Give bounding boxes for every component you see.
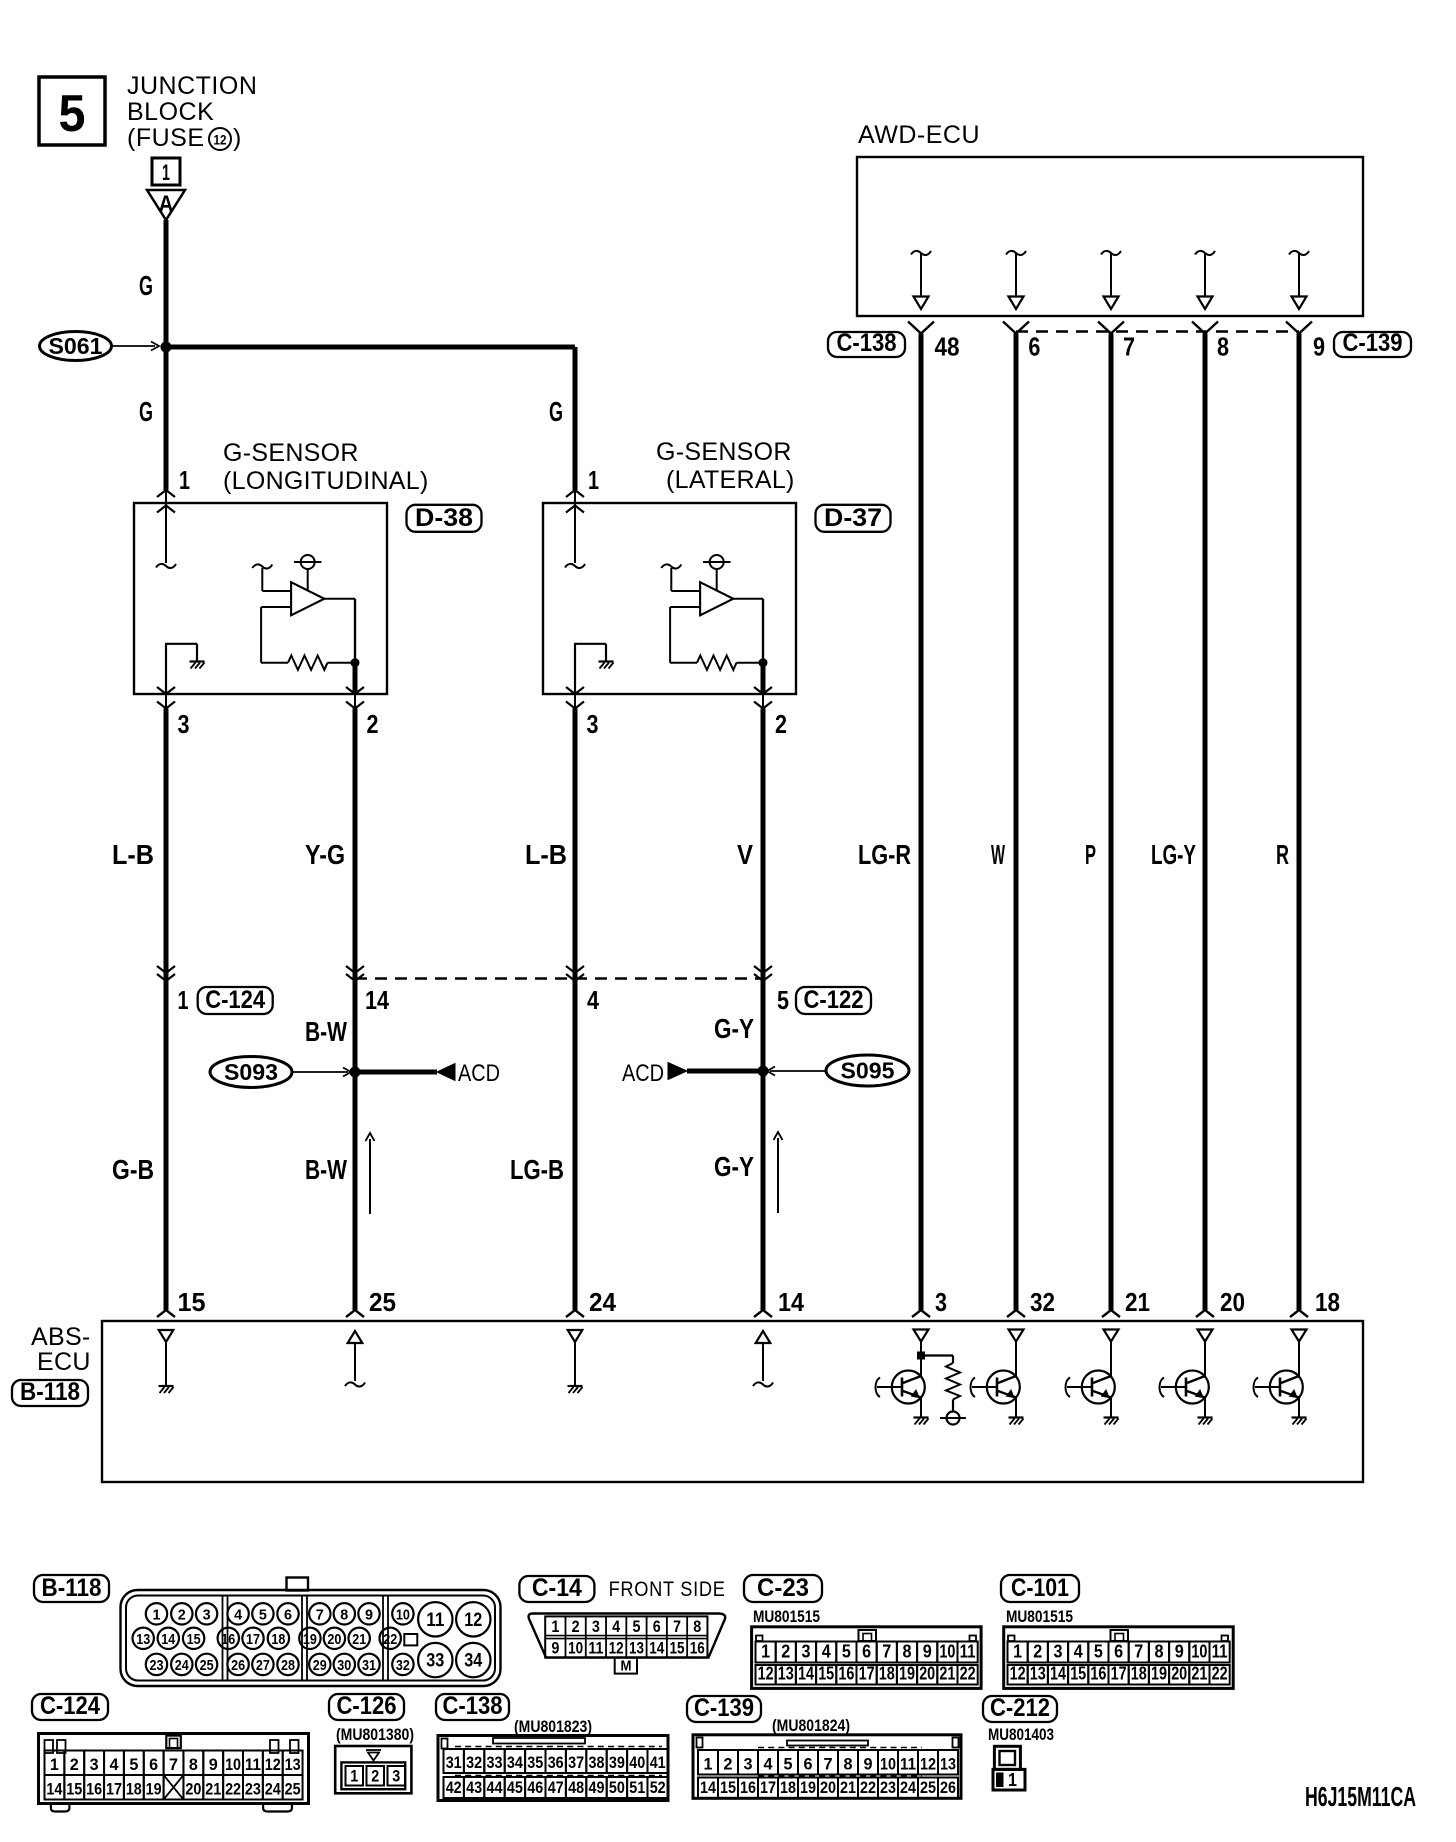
svg-text:26: 26: [231, 1657, 245, 1674]
svg-text:5: 5: [129, 1755, 138, 1774]
svg-text:13: 13: [1030, 1664, 1046, 1684]
svg-text:15: 15: [818, 1664, 834, 1684]
svg-text:20: 20: [919, 1664, 935, 1684]
svg-text:L-B: L-B: [525, 839, 567, 870]
svg-text:9: 9: [923, 1642, 932, 1662]
svg-text:LG-Y: LG-Y: [1151, 839, 1196, 870]
svg-text:14: 14: [365, 985, 389, 1015]
svg-text:14: 14: [161, 1631, 176, 1648]
svg-text:2: 2: [724, 1755, 733, 1774]
svg-text:G-B: G-B: [112, 1154, 154, 1185]
svg-text:5: 5: [59, 85, 86, 143]
svg-text:2: 2: [775, 709, 787, 739]
svg-text:MU801515: MU801515: [1006, 1607, 1073, 1626]
svg-text:22: 22: [960, 1664, 976, 1684]
svg-text:26: 26: [940, 1778, 956, 1797]
svg-text:11: 11: [588, 1639, 603, 1658]
svg-text:33: 33: [487, 1753, 503, 1772]
svg-text:6: 6: [653, 1617, 661, 1636]
svg-text:1: 1: [1008, 1770, 1017, 1790]
svg-text:JUNCTION: JUNCTION: [127, 72, 257, 100]
svg-text:ACD: ACD: [458, 1060, 500, 1087]
svg-text:G: G: [139, 270, 153, 301]
svg-text:C-138: C-138: [443, 1692, 503, 1720]
svg-text:14: 14: [700, 1778, 716, 1797]
svg-text:15: 15: [720, 1778, 736, 1797]
svg-text:12: 12: [920, 1755, 936, 1774]
svg-text:): ): [233, 124, 241, 152]
svg-text:24: 24: [900, 1778, 916, 1797]
svg-text:35: 35: [527, 1753, 543, 1772]
svg-text:32: 32: [396, 1657, 410, 1674]
svg-text:3: 3: [203, 1606, 211, 1623]
svg-text:C-124: C-124: [40, 1692, 100, 1720]
svg-text:47: 47: [548, 1778, 564, 1797]
svg-text:2: 2: [371, 1767, 379, 1786]
svg-text:1: 1: [1013, 1642, 1022, 1662]
svg-text:LG-B: LG-B: [510, 1154, 564, 1185]
svg-text:8: 8: [903, 1642, 912, 1662]
svg-text:15: 15: [1070, 1664, 1086, 1684]
svg-text:C-124: C-124: [205, 986, 265, 1014]
svg-text:9: 9: [365, 1606, 373, 1623]
svg-text:32: 32: [466, 1753, 482, 1772]
svg-text:2: 2: [70, 1755, 79, 1774]
svg-text:C-23: C-23: [757, 1574, 809, 1602]
svg-text:R: R: [1276, 839, 1289, 870]
svg-text:11: 11: [960, 1642, 976, 1662]
svg-text:3: 3: [587, 709, 599, 739]
svg-text:B-118: B-118: [42, 1574, 102, 1602]
svg-text:31: 31: [362, 1657, 376, 1674]
svg-text:(MU801824): (MU801824): [772, 1716, 850, 1735]
svg-text:W: W: [991, 839, 1005, 870]
svg-text:31: 31: [446, 1753, 462, 1772]
svg-text:41: 41: [650, 1753, 666, 1772]
svg-text:13: 13: [629, 1639, 644, 1658]
svg-text:V: V: [737, 839, 753, 870]
svg-text:1: 1: [179, 465, 190, 495]
svg-text:19: 19: [800, 1778, 816, 1797]
svg-text:S061: S061: [49, 333, 103, 359]
svg-text:23: 23: [150, 1657, 164, 1674]
svg-text:ECU: ECU: [37, 1348, 91, 1376]
svg-text:25: 25: [285, 1780, 301, 1799]
svg-text:22: 22: [383, 1631, 397, 1648]
svg-text:LG-R: LG-R: [858, 839, 911, 870]
svg-text:C-101: C-101: [1011, 1574, 1069, 1602]
svg-text:1: 1: [761, 1642, 770, 1662]
svg-text:6: 6: [804, 1755, 813, 1774]
svg-text:7: 7: [1123, 332, 1135, 362]
svg-text:30: 30: [337, 1657, 351, 1674]
svg-text:16: 16: [1090, 1664, 1106, 1684]
svg-text:22: 22: [1212, 1664, 1228, 1684]
svg-text:20: 20: [1220, 1287, 1245, 1317]
svg-text:1: 1: [551, 1617, 559, 1636]
svg-text:8: 8: [189, 1755, 198, 1774]
svg-text:16: 16: [86, 1780, 102, 1799]
svg-text:1: 1: [162, 160, 170, 185]
svg-text:6: 6: [284, 1606, 292, 1623]
svg-text:2: 2: [178, 1606, 186, 1623]
svg-text:7: 7: [1134, 1642, 1143, 1662]
svg-text:11: 11: [1212, 1642, 1228, 1662]
svg-text:18: 18: [780, 1778, 796, 1797]
svg-text:15: 15: [187, 1631, 201, 1648]
svg-text:D-38: D-38: [415, 504, 473, 532]
svg-text:48: 48: [568, 1778, 584, 1797]
svg-text:G: G: [139, 396, 153, 427]
svg-text:23: 23: [245, 1780, 261, 1799]
svg-text:10: 10: [880, 1755, 896, 1774]
svg-text:G: G: [549, 396, 563, 427]
svg-text:22: 22: [860, 1778, 876, 1797]
svg-text:29: 29: [313, 1657, 327, 1674]
svg-text:18: 18: [1315, 1287, 1340, 1317]
svg-text:17: 17: [106, 1780, 122, 1799]
svg-text:12: 12: [464, 1610, 482, 1631]
svg-text:D-37: D-37: [824, 504, 882, 532]
svg-text:32: 32: [1030, 1287, 1055, 1317]
svg-text:(LONGITUDINAL): (LONGITUDINAL): [223, 467, 429, 495]
svg-text:15: 15: [66, 1780, 82, 1799]
svg-text:8: 8: [1217, 332, 1229, 362]
svg-text:5: 5: [784, 1755, 793, 1774]
svg-text:21: 21: [205, 1780, 221, 1799]
svg-text:7: 7: [316, 1606, 324, 1623]
svg-text:G-SENSOR: G-SENSOR: [223, 439, 359, 467]
svg-text:20: 20: [820, 1778, 836, 1797]
svg-text:19: 19: [146, 1780, 162, 1799]
svg-text:6: 6: [862, 1642, 871, 1662]
svg-text:34: 34: [507, 1753, 523, 1772]
svg-text:9: 9: [551, 1639, 559, 1658]
svg-text:52: 52: [650, 1778, 666, 1797]
svg-text:33: 33: [426, 1651, 444, 1672]
svg-text:37: 37: [568, 1753, 584, 1772]
svg-text:P: P: [1085, 839, 1096, 870]
svg-text:16: 16: [740, 1778, 756, 1797]
svg-text:21: 21: [352, 1631, 366, 1648]
svg-text:11: 11: [245, 1755, 261, 1774]
svg-text:C-126: C-126: [337, 1692, 397, 1720]
svg-text:49: 49: [589, 1778, 605, 1797]
svg-text:1: 1: [588, 465, 599, 495]
svg-text:20: 20: [327, 1631, 341, 1648]
svg-text:(MU801823): (MU801823): [514, 1717, 592, 1736]
svg-text:8: 8: [1155, 1642, 1164, 1662]
svg-text:17: 17: [859, 1664, 875, 1684]
svg-text:3: 3: [178, 709, 190, 739]
svg-text:9: 9: [864, 1755, 873, 1774]
svg-text:24: 24: [175, 1657, 190, 1674]
svg-text:12: 12: [265, 1755, 281, 1774]
svg-text:5: 5: [777, 985, 789, 1015]
svg-text:2: 2: [572, 1617, 580, 1636]
svg-text:8: 8: [693, 1617, 701, 1636]
svg-text:42: 42: [446, 1778, 462, 1797]
svg-text:S093: S093: [224, 1059, 278, 1085]
svg-text:5: 5: [1094, 1642, 1103, 1662]
svg-text:1: 1: [350, 1767, 358, 1786]
svg-text:10: 10: [225, 1755, 241, 1774]
svg-text:9: 9: [1313, 332, 1325, 362]
svg-text:12: 12: [1010, 1664, 1026, 1684]
svg-text:H6J15M11CA: H6J15M11CA: [1305, 1781, 1416, 1812]
svg-text:C-138: C-138: [837, 329, 897, 357]
svg-text:(LATERAL): (LATERAL): [666, 466, 795, 494]
svg-text:1: 1: [50, 1755, 59, 1774]
svg-text:4: 4: [109, 1755, 119, 1774]
svg-text:20: 20: [1171, 1664, 1187, 1684]
svg-text:9: 9: [1175, 1642, 1184, 1662]
svg-text:FRONT SIDE: FRONT SIDE: [609, 1578, 726, 1601]
svg-text:23: 23: [880, 1778, 896, 1797]
svg-text:ABS-: ABS-: [31, 1323, 91, 1351]
svg-text:12: 12: [609, 1639, 624, 1658]
svg-text:19: 19: [899, 1664, 915, 1684]
svg-text:1: 1: [704, 1755, 713, 1774]
svg-text:18: 18: [271, 1631, 285, 1648]
svg-text:19: 19: [303, 1631, 317, 1648]
svg-text:4: 4: [822, 1642, 831, 1662]
svg-text:8: 8: [340, 1606, 348, 1623]
svg-text:17: 17: [760, 1778, 776, 1797]
svg-text:24: 24: [589, 1287, 617, 1317]
svg-text:A: A: [159, 191, 174, 218]
svg-text:27: 27: [256, 1657, 270, 1674]
svg-text:C-122: C-122: [804, 986, 864, 1014]
svg-text:11: 11: [900, 1755, 916, 1774]
svg-text:5: 5: [842, 1642, 851, 1662]
svg-text:16: 16: [221, 1631, 235, 1648]
svg-text:17: 17: [1111, 1664, 1127, 1684]
svg-text:18: 18: [126, 1780, 142, 1799]
svg-text:4: 4: [1074, 1642, 1083, 1662]
svg-text:12: 12: [758, 1664, 774, 1684]
svg-text:1: 1: [153, 1606, 161, 1623]
svg-text:14: 14: [798, 1664, 814, 1684]
svg-text:G-SENSOR: G-SENSOR: [656, 438, 792, 466]
svg-text:13: 13: [940, 1755, 956, 1774]
svg-text:7: 7: [673, 1617, 681, 1636]
svg-text:(MU801380): (MU801380): [336, 1725, 414, 1744]
svg-text:M: M: [621, 1658, 632, 1675]
svg-text:G-Y: G-Y: [714, 1151, 754, 1182]
svg-text:C-139: C-139: [694, 1694, 754, 1722]
svg-text:13: 13: [285, 1755, 301, 1774]
svg-text:6: 6: [1028, 332, 1040, 362]
svg-text:19: 19: [1151, 1664, 1167, 1684]
svg-text:40: 40: [629, 1753, 645, 1772]
svg-text:17: 17: [246, 1631, 260, 1648]
svg-text:22: 22: [225, 1780, 241, 1799]
svg-text:L-B: L-B: [112, 839, 154, 870]
svg-text:50: 50: [609, 1778, 625, 1797]
svg-text:34: 34: [464, 1651, 482, 1672]
svg-text:12: 12: [214, 132, 227, 148]
svg-text:AWD-ECU: AWD-ECU: [858, 121, 980, 149]
svg-text:5: 5: [632, 1617, 640, 1636]
svg-text:48: 48: [935, 332, 960, 362]
svg-text:9: 9: [209, 1755, 218, 1774]
svg-text:C-14: C-14: [532, 1574, 582, 1602]
svg-text:21: 21: [840, 1778, 856, 1797]
svg-text:15: 15: [178, 1287, 206, 1317]
svg-text:18: 18: [879, 1664, 895, 1684]
svg-text:10: 10: [396, 1606, 410, 1623]
svg-text:21: 21: [939, 1664, 955, 1684]
svg-text:ACD: ACD: [622, 1060, 664, 1087]
svg-text:2: 2: [367, 709, 379, 739]
svg-text:1: 1: [178, 985, 189, 1015]
svg-text:B-W: B-W: [305, 1016, 347, 1047]
svg-text:7: 7: [169, 1755, 178, 1774]
svg-text:16: 16: [690, 1639, 705, 1658]
svg-text:MU801403: MU801403: [988, 1725, 1054, 1744]
svg-text:MU801515: MU801515: [753, 1607, 820, 1626]
svg-text:2: 2: [1033, 1642, 1042, 1662]
svg-text:14: 14: [46, 1780, 62, 1799]
svg-text:16: 16: [838, 1664, 854, 1684]
svg-text:3: 3: [392, 1767, 400, 1786]
svg-text:B-118: B-118: [20, 1378, 80, 1406]
svg-text:6: 6: [149, 1755, 158, 1774]
svg-text:3: 3: [1054, 1642, 1063, 1662]
svg-text:4: 4: [764, 1755, 774, 1774]
svg-text:11: 11: [426, 1610, 444, 1631]
svg-text:14: 14: [1050, 1664, 1066, 1684]
svg-text:G-Y: G-Y: [714, 1013, 754, 1044]
svg-text:51: 51: [629, 1778, 645, 1797]
svg-text:4: 4: [612, 1617, 620, 1636]
svg-text:B-W: B-W: [305, 1154, 347, 1185]
svg-text:20: 20: [185, 1780, 201, 1799]
svg-text:14: 14: [649, 1639, 664, 1658]
svg-text:21: 21: [1125, 1287, 1150, 1317]
svg-text:39: 39: [609, 1753, 625, 1772]
svg-text:3: 3: [802, 1642, 811, 1662]
svg-text:15: 15: [670, 1639, 685, 1658]
svg-text:10: 10: [939, 1642, 955, 1662]
svg-text:13: 13: [136, 1631, 150, 1648]
svg-text:2: 2: [781, 1642, 790, 1662]
svg-text:46: 46: [527, 1778, 543, 1797]
svg-text:C-139: C-139: [1343, 329, 1403, 357]
svg-text:43: 43: [466, 1778, 482, 1797]
svg-text:3: 3: [90, 1755, 99, 1774]
svg-text:25: 25: [920, 1778, 936, 1797]
svg-text:3: 3: [744, 1755, 753, 1774]
svg-text:6: 6: [1114, 1642, 1123, 1662]
svg-text:25: 25: [369, 1287, 396, 1317]
svg-text:25: 25: [200, 1657, 214, 1674]
svg-text:13: 13: [778, 1664, 794, 1684]
svg-text:Y-G: Y-G: [305, 839, 345, 870]
svg-text:8: 8: [844, 1755, 853, 1774]
svg-text:28: 28: [281, 1657, 295, 1674]
svg-text:4: 4: [587, 985, 599, 1015]
svg-text:3: 3: [935, 1287, 947, 1317]
svg-text:18: 18: [1131, 1664, 1147, 1684]
svg-text:10: 10: [568, 1639, 583, 1658]
svg-text:(FUSE: (FUSE: [127, 124, 205, 152]
svg-text:3: 3: [592, 1617, 600, 1636]
svg-text:14: 14: [778, 1287, 804, 1317]
svg-text:38: 38: [589, 1753, 605, 1772]
svg-text:10: 10: [1191, 1642, 1207, 1662]
svg-text:5: 5: [259, 1606, 267, 1623]
svg-text:4: 4: [234, 1606, 243, 1623]
svg-text:7: 7: [882, 1642, 891, 1662]
svg-text:44: 44: [487, 1778, 503, 1797]
svg-text:36: 36: [548, 1753, 564, 1772]
svg-text:C-212: C-212: [990, 1694, 1050, 1722]
svg-text:24: 24: [265, 1780, 281, 1799]
svg-text:45: 45: [507, 1778, 523, 1797]
svg-text:S095: S095: [841, 1058, 895, 1084]
svg-text:21: 21: [1191, 1664, 1207, 1684]
svg-text:7: 7: [824, 1755, 833, 1774]
svg-text:BLOCK: BLOCK: [127, 98, 214, 126]
